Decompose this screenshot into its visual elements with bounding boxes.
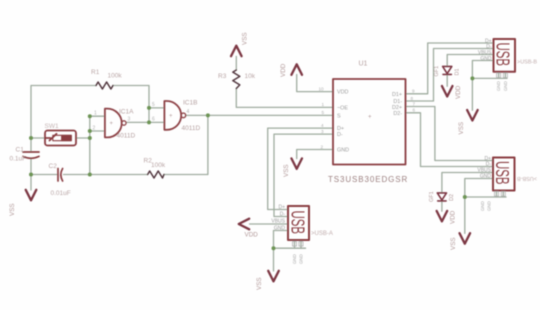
svg-text:+: + (368, 115, 372, 121)
svg-text:IC1A: IC1A (119, 109, 134, 116)
diode D1 (GF1) (443, 66, 452, 74)
svg-text:VDD: VDD (280, 63, 287, 77)
wire R2 to IC1B output node (164, 115, 208, 174)
svg-text:VDD: VDD (245, 232, 259, 239)
svg-text:SW1: SW1 (45, 123, 59, 130)
svg-text:VSS: VSS (242, 32, 249, 45)
wire U1 pin9 to USB-B top D+ (406, 43, 494, 94)
wire R3 bottom to ~OE pin of U1 (236, 89, 333, 108)
wire R1 right to IC1B input node (113, 86, 149, 123)
wire diode D1 to VDD (446, 75, 448, 87)
svg-text:100k: 100k (151, 162, 166, 169)
wire switch right (76, 137, 90, 139)
USB-B bottom shield pin pads (495, 192, 506, 197)
wire node-X top run left of R1 (31, 86, 96, 153)
junction switch right node (88, 136, 92, 140)
svg-text:VSS: VSS (458, 122, 465, 135)
svg-text:2: 2 (93, 126, 96, 132)
svg-text:C2: C2 (49, 163, 58, 170)
junction USB-B bottom ground node (463, 195, 467, 199)
svg-text:VSS: VSS (450, 237, 457, 250)
wire bottom rail junction to R2 (90, 174, 148, 176)
USB-A shield pin labels (292, 254, 304, 264)
svg-text:GND: GND (292, 254, 297, 264)
svg-text:VSS: VSS (283, 164, 290, 177)
svg-text:GND: GND (337, 148, 349, 154)
svg-text:D2: D2 (449, 194, 455, 201)
svg-text:D1: D1 (455, 68, 461, 75)
svg-text:7: 7 (413, 101, 416, 106)
wire U1 GND pin to VSS (297, 150, 333, 159)
junction IC1A pin2 node (88, 129, 92, 133)
wire USB-B bottom VBUS to diode D2 (442, 173, 493, 194)
capacitor C1 (23, 152, 39, 158)
svg-text:R3: R3 (218, 73, 227, 80)
svg-text:2: 2 (321, 144, 324, 149)
power VDD below D1 (arrow down) (442, 86, 453, 97)
switch SW1 (45, 131, 76, 146)
svg-text:VDD: VDD (455, 85, 462, 99)
resistor R1 (96, 82, 113, 89)
svg-text:GF1: GF1 (429, 191, 435, 202)
wire U1 pin7 to USB-B bottom D+ (406, 107, 494, 161)
wire USB-A shield pin stubs (294, 240, 296, 248)
wire IC1B output (186, 114, 208, 116)
wire USB-B top ground node to VSS (471, 78, 473, 110)
wire bottom rail C1 to C2 (31, 174, 57, 176)
svg-text:10k: 10k (245, 73, 256, 80)
junction IC1B pin5 node (147, 106, 151, 110)
svg-text:D-: D- (280, 212, 286, 218)
svg-text:0.1uF: 0.1uF (10, 156, 27, 163)
junction IC1A pin1 node (88, 114, 92, 118)
wire U1 pin6 to USB-B bottom D- (406, 113, 494, 167)
wire USB-A ground node to VSS (273, 248, 275, 271)
svg-text:GND: GND (496, 81, 501, 91)
svg-text:C1: C1 (16, 147, 25, 154)
svg-text:GND: GND (274, 226, 286, 232)
svg-text:+: + (169, 114, 173, 120)
resistor R2 (148, 171, 164, 178)
wire VDD to U1 VDD pin (297, 75, 333, 92)
svg-text:D2-: D2- (393, 111, 402, 117)
ground VSS below U1 GND (291, 158, 302, 169)
svg-text:D1+: D1+ (392, 92, 402, 98)
svg-text:GND: GND (480, 174, 492, 180)
svg-text:IC1B: IC1B (183, 100, 197, 107)
svg-text:VDD: VDD (337, 90, 348, 96)
svg-text:USB: USB (287, 211, 307, 235)
junction USB-A ground node (272, 246, 276, 250)
svg-text:8: 8 (411, 96, 414, 101)
svg-text:>USB-B: >USB-B (517, 175, 537, 181)
wire R3 top to VSS (235, 56, 237, 70)
power VDD left arrow at USB-A (239, 219, 250, 230)
USB-B top shield pin labels (496, 81, 508, 91)
svg-text:3: 3 (128, 117, 131, 123)
wire USB-A ground node to shield pins (274, 247, 306, 249)
svg-text:5: 5 (152, 102, 155, 108)
USB-B bottom shield pin labels (480, 201, 492, 211)
ground VSS below USB-B top (467, 110, 478, 121)
svg-text:R1: R1 (91, 69, 100, 76)
wire C2 to mid junction (64, 174, 90, 176)
power VDD below D2 (arrow down) (437, 211, 448, 222)
svg-text:6: 6 (152, 117, 155, 123)
svg-text:9: 9 (412, 89, 415, 94)
svg-text:100k: 100k (108, 73, 123, 80)
capacitor C2 (58, 169, 63, 182)
svg-text:USB: USB (491, 161, 511, 185)
op-amp gate IC1A (4011 NAND) (105, 109, 126, 138)
junction at C1 bottom rail (29, 173, 33, 177)
wire USB-B bottom GND down (465, 179, 493, 198)
svg-text:4: 4 (321, 123, 324, 128)
svg-text:6: 6 (413, 108, 416, 113)
connector USB-B top right (494, 39, 516, 72)
svg-text:D+: D+ (278, 205, 285, 211)
wire switch left (31, 137, 45, 139)
USB-B top shield pin pads (497, 73, 508, 78)
svg-text:1: 1 (94, 111, 97, 117)
svg-text:4: 4 (187, 109, 190, 115)
op-amp gate IC1B (4011 NAND) (164, 101, 185, 130)
U1 pin names (337, 90, 402, 154)
svg-text:VDD: VDD (450, 210, 457, 224)
svg-text:4011D: 4011D (117, 133, 136, 140)
wire IC1A output to IC1B pin6 (126, 121, 164, 123)
svg-text:~OE: ~OE (337, 106, 348, 112)
wire USB-B bottom ground node to shield pins (465, 196, 506, 198)
svg-text:0.01uF: 0.01uF (51, 190, 71, 197)
svg-text:+: + (110, 121, 114, 127)
junction IC1B output node (206, 113, 210, 117)
USB-A shield pin pads (293, 242, 304, 247)
wire C1 bottom to VSS and bottom rail (30, 158, 32, 190)
svg-text:S: S (337, 114, 341, 120)
diode D2 (GF1) (437, 193, 446, 201)
wire IC1A pin2 stub (90, 130, 104, 132)
junction IC1B pin6 node (147, 120, 151, 124)
svg-text:>USB-B: >USB-B (517, 60, 537, 66)
junction bottom rail mid (88, 173, 92, 177)
ground VSS below USB-A (268, 271, 279, 282)
svg-text:USB: USB (492, 43, 512, 67)
wire U1 D+ to USB-A D+ (268, 128, 333, 209)
wire mid junction up to IC1A inputs (90, 116, 104, 174)
svg-text:VSS: VSS (256, 277, 263, 290)
svg-text:GND: GND (299, 254, 304, 264)
wire VDD arrow to USB-A VBUS (250, 223, 289, 225)
wire USB-B top shield stubs (498, 72, 500, 79)
svg-text:VBUS: VBUS (271, 219, 285, 225)
svg-text:GND: GND (480, 56, 492, 62)
junction USB-B top ground node (470, 76, 474, 80)
wire pin5 stub IC1B (149, 107, 164, 109)
svg-text:5: 5 (322, 110, 325, 115)
svg-text:3: 3 (321, 129, 324, 134)
svg-text:GND: GND (480, 201, 485, 211)
svg-text:GF1: GF1 (434, 66, 440, 77)
connector USB-B bottom right (493, 158, 515, 191)
svg-text:4011D: 4011D (182, 125, 201, 132)
U1 pin numbers (319, 86, 416, 149)
wire USB-A GND down to ground node (274, 231, 289, 249)
ground VSS above R3 (arrow up) (231, 46, 242, 57)
ground VSS below USB-B bottom (460, 233, 471, 244)
wire net S to U1 (208, 114, 333, 116)
wire USB-B top GND down (472, 61, 493, 79)
IC U1 TS3USB30EDGSR (333, 79, 406, 165)
svg-text:GND: GND (487, 201, 492, 211)
wire USB-B bottom ground node to VSS (464, 197, 466, 233)
wire USB-B top ground node to shield pins (472, 77, 507, 79)
junction at switch left node (29, 136, 33, 140)
svg-text:1: 1 (322, 102, 325, 107)
power VDD above U1 (arrow up) (291, 64, 302, 75)
wire diode D2 to VDD (441, 201, 443, 211)
wire U1 D- to USB-A D- (274, 134, 333, 216)
wire USB-B top VBUS to diode D1 (447, 55, 493, 67)
wire USB-B bottom shield stubs (496, 191, 498, 198)
svg-text:GND: GND (503, 81, 508, 91)
svg-text:>USB-A: >USB-A (311, 231, 333, 237)
svg-text:U1: U1 (359, 61, 368, 68)
ground VSS left (26, 190, 37, 201)
connector USB-A (middle bottom) (288, 206, 309, 240)
resistor R3 (233, 70, 240, 89)
svg-text:VSS: VSS (9, 203, 16, 216)
svg-text:D-: D- (337, 132, 343, 138)
svg-text:TS3USB30EDGSR: TS3USB30EDGSR (328, 175, 408, 184)
svg-text:10: 10 (319, 86, 325, 91)
wire U1 pin8 to USB-B top D- (406, 49, 494, 102)
